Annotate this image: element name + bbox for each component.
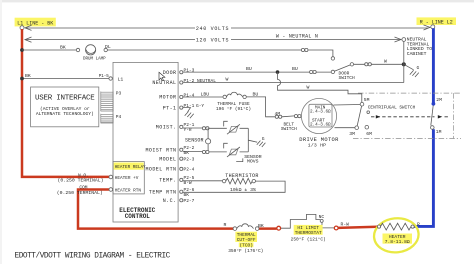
svg-text:MOVS: MOVS [247, 159, 259, 165]
connector pair on lamp wire [301, 48, 304, 51]
pin COM [109, 188, 113, 192]
svg-text:P2-4: P2-4 [184, 167, 195, 173]
svg-text:W: W [226, 77, 229, 83]
connector pair on door wire [310, 70, 313, 73]
wire 120 volts neutral line [26, 39, 401, 41]
ground at P1-1 [183, 108, 194, 119]
wire L1 red feed [22, 29, 110, 177]
svg-text:COM: COM [79, 184, 87, 190]
node TCO-out terminal [277, 226, 281, 230]
wire P1-2 neutral run [183, 82, 404, 84]
belt switch [275, 115, 278, 118]
svg-text:BK: BK [184, 150, 190, 156]
svg-text:THERMOSTAT: THERMOSTAT [295, 230, 322, 236]
node thermostat-out terminal [334, 226, 338, 230]
svg-text:PT-1: PT-1 [163, 105, 177, 111]
door switch lamp contact [331, 57, 334, 60]
svg-text:W: W [384, 58, 387, 64]
wire P2-1 moisture sensor [183, 127, 202, 129]
node neutral terminal [402, 38, 406, 42]
wire 240 volts line [26, 27, 429, 29]
svg-text:MODEL: MODEL [159, 156, 176, 162]
svg-text:W: W [307, 85, 310, 91]
wire TCO to hi-limit red [259, 227, 277, 230]
heater relay K1 [113, 162, 144, 194]
drive motor M1 [301, 98, 336, 133]
door switch blade [334, 65, 350, 71]
electronic control board [113, 62, 178, 222]
centrifugal switch 5M contact [360, 102, 364, 106]
svg-text:P2-7: P2-7 [184, 198, 195, 204]
heater element E1 [377, 225, 380, 228]
svg-text:1M: 1M [436, 129, 442, 135]
svg-text:4M: 4M [275, 111, 281, 117]
svg-text:NC: NC [319, 214, 325, 220]
svg-text:P1-2 NEUTRAL: P1-2 NEUTRAL [184, 78, 217, 84]
top window edge band [0, 0, 474, 2]
svg-text:6M: 6M [366, 131, 372, 137]
wire L1 to P1-5 [22, 78, 109, 80]
left window edge band [0, 0, 2, 264]
svg-text:HEATER +V: HEATER +V [115, 176, 139, 181]
svg-text:(0.250 TERMINAL): (0.250 TERMINAL) [57, 190, 103, 196]
node L1 terminal [20, 26, 24, 30]
svg-text:USER INTERFACE: USER INTERFACE [35, 95, 95, 103]
svg-text:CABINET: CABINET [407, 51, 427, 57]
thermistor RT1 [222, 179, 225, 182]
svg-text:BU: BU [292, 66, 298, 72]
svg-text:2M: 2M [436, 97, 442, 103]
centrifugal switch 1M contact [431, 126, 435, 130]
node L2 terminal [431, 25, 435, 29]
user interface board [31, 87, 99, 127]
svg-text:NEUTRAL: NEUTRAL [152, 80, 176, 86]
svg-text:250°F (121°C): 250°F (121°C) [291, 237, 326, 243]
svg-text:(TCO): (TCO) [239, 242, 253, 248]
door switch lower contact [331, 70, 334, 73]
wire L2 blue feed [432, 28, 435, 103]
wire drum lamp row [22, 50, 333, 57]
svg-text:CENTRIFUGAL SWITCH: CENTRIFUGAL SWITCH [368, 105, 416, 110]
wire motor to 3M [335, 127, 355, 129]
svg-text:2.4-3.6Ω: 2.4-3.6Ω [310, 110, 331, 115]
svg-text:MOIST RTN: MOIST RTN [145, 148, 176, 154]
wire P1-4 motor feed [183, 96, 223, 98]
ground at neutral junction [404, 64, 419, 77]
centrifugal switch assembly boundary [353, 93, 461, 138]
wire neutral terminal drop [403, 41, 405, 82]
ribbon connector P4 [101, 114, 113, 123]
svg-text:3M: 3M [349, 131, 355, 137]
centrifugal switch 6M contact [365, 125, 369, 129]
svg-text:DL: DL [105, 44, 111, 50]
svg-text:BK: BK [25, 73, 31, 79]
svg-text:G: G [417, 65, 420, 71]
svg-text:R-W: R-W [341, 222, 350, 228]
MOV 1 [229, 126, 238, 132]
actuator dashed link [371, 116, 450, 118]
wire door switch to neutral junction [354, 63, 404, 65]
svg-text:THERMISTOR: THERMISTOR [225, 173, 259, 179]
svg-text:2.4-3.6Ω: 2.4-3.6Ω [310, 123, 331, 128]
svg-text:(0.250 TERMINAL): (0.250 TERMINAL) [58, 178, 104, 184]
svg-text:BU: BU [246, 66, 252, 72]
svg-text:7.8-11.8Ω: 7.8-11.8Ω [385, 239, 410, 245]
MOV 2 [229, 149, 238, 155]
pins P1-3..P2-7 [180, 71, 183, 202]
node neutral junction [402, 62, 406, 66]
thermal fuse [223, 95, 226, 98]
node L1 terminal label [15, 18, 56, 27]
wire motor to 5M [334, 104, 361, 107]
wire P1-3 door run [183, 71, 331, 73]
ground at sensor [248, 140, 265, 147]
centrifugal switch pivot [367, 111, 370, 114]
wire 1M to heater blue [414, 129, 434, 226]
svg-text:N.O.: N.O. [78, 172, 89, 178]
wire hi-limit to heater red [338, 227, 377, 228]
svg-text:SWITCH: SWITCH [281, 127, 297, 132]
pin P1-5 [109, 77, 112, 80]
svg-text:P2-3: P2-3 [184, 156, 195, 162]
wire thermistor loop to P2-6 [183, 181, 285, 192]
svg-text:CONTROL: CONTROL [125, 213, 151, 220]
svg-text:MODEL RTN: MODEL RTN [145, 167, 176, 173]
svg-text:G: G [262, 136, 265, 142]
drum lamp [86, 45, 96, 55]
svg-text:DOOR: DOOR [163, 70, 177, 76]
svg-text:R - LINE L2: R - LINE L2 [420, 19, 453, 25]
heater highlight ellipse [372, 216, 420, 254]
svg-text:MOTOR: MOTOR [159, 95, 176, 101]
svg-text:DRUM LAMP: DRUM LAMP [83, 57, 106, 61]
svg-text:MOIST.: MOIST. [156, 125, 177, 131]
wire door branch to centrifugal 5M (hops neutral) [278, 72, 362, 102]
wire P2-2 sensor return [183, 151, 202, 153]
svg-text:P4: P4 [116, 114, 122, 120]
svg-text:L1: L1 [118, 76, 124, 82]
mouse cursor [159, 72, 165, 81]
svg-text:EDOTT/VDOTT WIRING DIAGRAM - E: EDOTT/VDOTT WIRING DIAGRAM - ELECTRIC [15, 252, 171, 260]
hi-limit thermostat [281, 214, 320, 228]
svg-text:R: R [417, 221, 420, 227]
sensor right rail [247, 128, 249, 152]
svg-text:P3: P3 [116, 90, 122, 96]
svg-text:W - NEUTRAL N: W - NEUTRAL N [276, 33, 318, 39]
svg-text:BK: BK [60, 44, 66, 50]
svg-text:LBU: LBU [201, 92, 210, 98]
svg-text:350°F (176°C): 350°F (176°C) [228, 248, 263, 254]
pin column labels inside board [145, 70, 176, 204]
centrifugal switch blade 5M-3M [357, 106, 361, 126]
wire P2-5 thermistor [183, 180, 222, 182]
centrifugal switch blade 2M-1M [431, 106, 433, 126]
svg-text:HEATER RELAY: HEATER RELAY [115, 165, 146, 170]
svg-text:120 VOLTS: 120 VOLTS [196, 38, 229, 44]
svg-text:N.C.: N.C. [163, 198, 177, 204]
moisture sensor [207, 128, 209, 152]
centrifugal switch 3M contact [355, 126, 359, 130]
svg-text:R: R [224, 222, 227, 228]
svg-text:240 VOLTS: 240 VOLTS [196, 26, 229, 32]
svg-text:G-Y: G-Y [196, 103, 204, 109]
svg-text:HEATER RTN: HEATER RTN [115, 189, 142, 194]
wire fuse to belt switch [246, 97, 275, 117]
svg-text:5M: 5M [364, 97, 370, 103]
svg-text:196 °F (91°C): 196 °F (91°C) [216, 106, 251, 112]
svg-text:P1-3: P1-3 [184, 68, 195, 74]
svg-text:TEMP RTN: TEMP RTN [149, 189, 177, 195]
svg-text:P1-5: P1-5 [99, 75, 110, 79]
svg-text:SWITCH: SWITCH [339, 75, 356, 81]
svg-text:1/3 HP: 1/3 HP [308, 142, 326, 148]
wire heater relay COM red to TCO [78, 190, 234, 229]
ribbon connector P3 [101, 92, 113, 112]
node junction on L1 at drum lamp row [20, 48, 24, 52]
pin N.O. [109, 175, 113, 179]
svg-text:DRIVE MOTOR: DRIVE MOTOR [299, 137, 339, 143]
sensor bottom rail [209, 151, 248, 153]
node L2 terminal label [417, 17, 457, 25]
door switch common contact [350, 63, 353, 66]
node junction door wire [276, 70, 280, 74]
drum lamp DL terminal left [76, 48, 79, 51]
centrifugal switch 2M contact [432, 102, 436, 106]
svg-text:SENSOR: SENSOR [185, 137, 204, 143]
svg-text:TEMP.: TEMP. [159, 178, 176, 184]
svg-text:BK: BK [258, 223, 264, 229]
sensor top rail [209, 127, 248, 129]
svg-text:CUT-OFF: CUT-OFF [237, 237, 256, 243]
drum lamp terminal right [104, 48, 107, 51]
svg-text:ALTERNATE TECHNOLOGY): ALTERNATE TECHNOLOGY) [36, 111, 94, 117]
MOV bracket marks [224, 121, 228, 126]
